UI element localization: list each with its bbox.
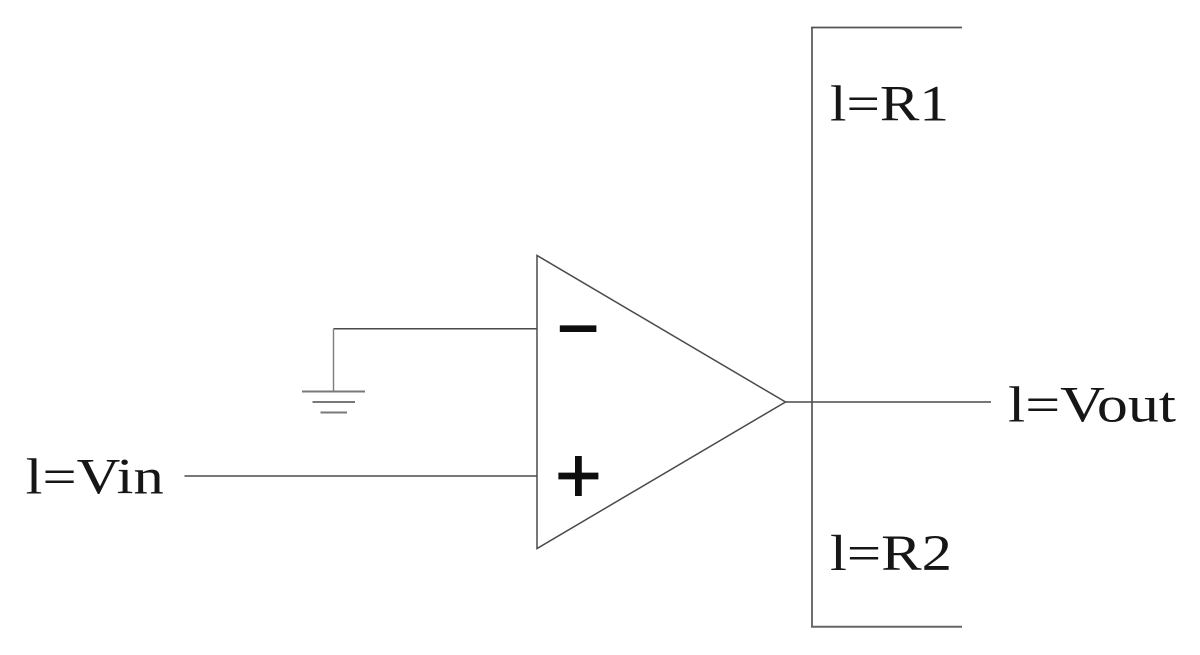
- wire: bottom rail horizontal: [811, 626, 962, 628]
- wire: top rail horizontal: [811, 27, 962, 29]
- wire: output to Vout: [786, 401, 992, 403]
- op-amp U1: [537, 256, 786, 549]
- svg-text:l=R2: l=R2: [830, 526, 952, 582]
- ground: [302, 392, 365, 413]
- svg-text:l=R1: l=R1: [830, 77, 949, 133]
- svg-text:l=Vout: l=Vout: [1008, 378, 1176, 434]
- wire: inverting input horizontal: [334, 328, 538, 330]
- svg-text:l=Vin: l=Vin: [26, 450, 164, 506]
- wire: feedback bus vertical R1/R2: [811, 28, 813, 627]
- op-amp plus pin marking: [558, 456, 598, 496]
- wire: ground drop vertical: [333, 329, 335, 392]
- op-amp minus pin marking: [560, 325, 597, 332]
- wire: Vin to non-inverting input: [185, 475, 538, 477]
